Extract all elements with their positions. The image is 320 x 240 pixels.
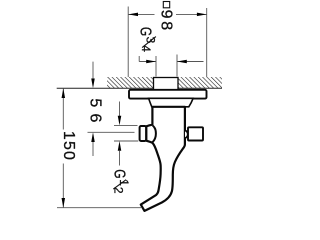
dim 56: upper arrow pointing down bbox=[91, 79, 95, 89]
dim G3/4: right extension line bbox=[176, 55, 178, 77]
dim 150: dimension line lower segment bbox=[62, 164, 64, 208]
dim 98: square symbol bbox=[163, 2, 169, 8]
ceiling hatch band bbox=[107, 77, 222, 88]
svg-text:2: 2 bbox=[111, 187, 125, 194]
svg-text:4: 4 bbox=[139, 45, 153, 52]
dim G3/4: dimension line left segment bbox=[139, 61, 156, 63]
dim G1/2: text bbox=[110, 169, 131, 194]
escutcheon cup bbox=[149, 98, 194, 107]
dim G1/2: upper line bbox=[119, 102, 121, 117]
dim 56: upper line above ceiling bbox=[92, 62, 94, 79]
cup bottom rim line bbox=[152, 106, 189, 108]
dim G3/4: text bbox=[136, 27, 157, 52]
dim 98: dimension line right segment bbox=[176, 13, 207, 15]
dim G1/2: lower line bbox=[119, 151, 121, 166]
dim 98: right arrow bbox=[197, 13, 207, 17]
svg-text:150: 150 bbox=[60, 131, 77, 160]
dim 150: dimension line upper segment bbox=[62, 88, 64, 129]
svg-text:G: G bbox=[136, 27, 153, 36]
dim G1/2: upper arrow pointing down bbox=[118, 116, 122, 126]
dim 98: left extension line bbox=[127, 7, 129, 78]
dim G3/4: dimension line right segment bbox=[177, 61, 204, 63]
dim 56: lower arrow pointing up bbox=[91, 132, 95, 142]
ceiling bottom surface line bbox=[57, 87, 222, 89]
svg-text:98: 98 bbox=[158, 10, 175, 31]
knob top extension line A bbox=[114, 124, 138, 126]
dim G3/4: left extension line bbox=[155, 56, 157, 77]
faucet body and spout outline bbox=[141, 107, 185, 211]
outlet connector (right) bbox=[188, 127, 203, 140]
dim 150: top arrow pointing up bbox=[62, 88, 66, 98]
dim 98: left arrow bbox=[128, 13, 138, 17]
dim 150: bottom arrow pointing down bbox=[62, 198, 66, 208]
svg-text:G: G bbox=[110, 169, 127, 178]
knob bottom extension line C bbox=[114, 140, 138, 142]
dim G3/4: right arrow bbox=[177, 60, 187, 64]
through-ceiling connector block bbox=[154, 78, 179, 91]
svg-text:56: 56 bbox=[86, 98, 103, 122]
dim G3/4: left arrow bbox=[146, 60, 156, 64]
dim G1/2: lower arrow pointing up bbox=[118, 141, 122, 151]
dim G3/4: leader vertical bbox=[138, 56, 140, 62]
side nub (right) bbox=[185, 130, 188, 138]
spout outlet level reference line bbox=[57, 207, 141, 209]
dim 98: right extension line bbox=[206, 8, 208, 77]
dim 56: lower line bbox=[92, 142, 94, 156]
handle knob (left) bbox=[140, 126, 147, 141]
flange plate (98 square) bbox=[129, 90, 207, 99]
dim 98: dimension line left segment bbox=[128, 13, 154, 15]
valve bonnet dome (left) bbox=[152, 126, 156, 143]
knob axis extension line B bbox=[88, 131, 135, 133]
